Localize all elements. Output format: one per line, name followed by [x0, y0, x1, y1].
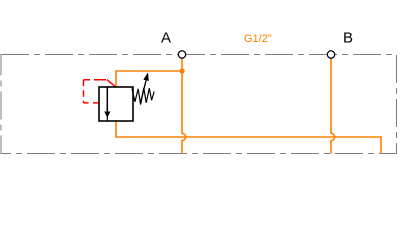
svg-text:A: A — [161, 29, 171, 46]
relief valve spring zigzag — [132, 88, 154, 105]
relief valve V1 body square — [99, 87, 133, 121]
pilot line top horizontal dashed segment — [84, 79, 108, 81]
pilot line left vertical dashed segment — [83, 80, 85, 103]
enclosure manifold block outline — [1, 55, 397, 154]
wire: port A vertical run with hop over bottom rail — [182, 58, 186, 154]
pilot line bottom horizontal dashed segment into valve left edge — [84, 102, 100, 104]
node junction dot at A line — [179, 68, 184, 73]
wire: valve bottom to tank rail and right drop — [116, 121, 381, 154]
wire: orange horizontal from valve top to node A junction — [116, 71, 182, 87]
svg-text:G1/2": G1/2" — [244, 33, 272, 45]
svg-text:B: B — [343, 30, 353, 47]
pilot line (red dashed) of relief valve : solid diagonal into valve top — [107, 80, 116, 88]
wire: port B vertical run with hop over bottom rail — [331, 58, 335, 154]
relief valve closed-position arrow (down) — [104, 87, 110, 121]
port A circle — [178, 51, 185, 58]
port B circle — [327, 51, 334, 58]
spring adjustment arrow — [141, 72, 149, 101]
